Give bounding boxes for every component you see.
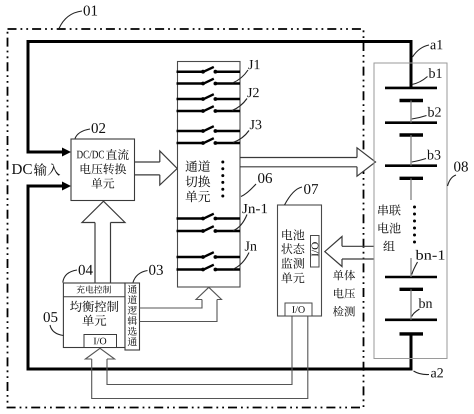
switch J2a bbox=[177, 94, 241, 101]
wire: cell link 3 bbox=[410, 178, 412, 200]
switch J1b bbox=[177, 79, 241, 86]
label DC input bbox=[12, 163, 60, 176]
arrowhead into DC/DC (lower) bbox=[62, 182, 71, 191]
battery cell bn-1 bbox=[385, 277, 437, 289]
label b2 bbox=[412, 107, 441, 119]
label 02 bbox=[75, 123, 105, 139]
wire: I/O link outer bbox=[92, 317, 308, 399]
label b3 bbox=[412, 150, 441, 162]
block U04: balance control unit bbox=[63, 283, 125, 348]
arrowhead into DC/DC (upper) bbox=[62, 148, 71, 157]
label 05 bbox=[44, 312, 64, 336]
battery cell b3 bbox=[385, 166, 437, 179]
wire: left lower segment into DC/DC input bbox=[28, 186, 63, 371]
I/O port of balance control bbox=[84, 335, 117, 348]
battery cell b2 bbox=[385, 123, 437, 135]
block: channel switching unit 06 bbox=[178, 62, 241, 288]
label: cell voltage detection bbox=[333, 270, 355, 317]
label a1 bbox=[413, 40, 443, 57]
label Jn bbox=[233, 241, 257, 269]
battery cell b1 bbox=[385, 88, 437, 101]
wire: cell link 2 bbox=[410, 135, 412, 166]
white arrow: DC/DC output to channel switching unit bbox=[160, 151, 177, 185]
switch J3b bbox=[177, 138, 241, 145]
enclosure border (dash-dot box of charger unit 01) bbox=[8, 29, 364, 408]
label 06 bbox=[241, 173, 272, 197]
white arrow: channel unit to series battery pack bbox=[357, 148, 376, 176]
label J1 bbox=[233, 60, 260, 83]
label Jn-1 bbox=[233, 204, 267, 231]
switch Jnb bbox=[177, 265, 241, 272]
wire: I/O link inner bbox=[107, 317, 292, 385]
switch Jn-1a bbox=[177, 214, 241, 221]
label J3 bbox=[233, 120, 261, 143]
wire: bottom bus to battery terminal a2 bbox=[27, 368, 412, 371]
battery cell bn bbox=[385, 320, 437, 334]
label 01 bbox=[59, 5, 97, 28]
wire: vertical rise to bn negative plate (node a2) bbox=[410, 334, 413, 371]
block U02: DC/DC voltage conversion unit bbox=[71, 139, 135, 201]
switch J3a bbox=[177, 126, 241, 133]
ellipsis dots in battery pack bbox=[413, 206, 416, 244]
label b1 bbox=[412, 68, 442, 84]
switch J2b bbox=[177, 106, 241, 113]
label J2 bbox=[232, 88, 259, 111]
label bn-1 bbox=[412, 250, 445, 275]
wire: cell link 4 bbox=[410, 258, 412, 277]
label 07 bbox=[285, 184, 319, 205]
wire: strobe line lower bbox=[140, 300, 218, 322]
I/O port (bottom) of monitor bbox=[285, 303, 312, 316]
label 04 bbox=[63, 265, 93, 283]
label bn bbox=[412, 298, 432, 316]
white arrow: channel logic strobe to channel switching unit bbox=[196, 287, 222, 299]
label: charge control band bbox=[77, 285, 111, 293]
ellipsis dots inside channel unit bbox=[221, 161, 224, 198]
label 08 bbox=[448, 161, 468, 186]
white arrow: cell voltage detection into monitor I/O bbox=[325, 237, 342, 267]
switch Jn-1b bbox=[177, 226, 241, 233]
wire: strobe line upper bbox=[140, 300, 203, 309]
label 03 bbox=[133, 265, 163, 283]
white arrow: balance control to DC/DC (charge control) bbox=[82, 201, 125, 222]
switch J1a bbox=[177, 67, 241, 74]
block U03: channel logic strobe (vertical) bbox=[125, 283, 140, 350]
wire: top bus from loop to battery terminal a1 bbox=[28, 40, 411, 43]
block U07: battery status monitoring unit bbox=[278, 205, 322, 316]
battery pack enclosure 08 bbox=[374, 63, 447, 359]
white arrow: monitor data into balance control I/O bbox=[85, 348, 114, 359]
I/O port (side) of monitor bbox=[311, 236, 320, 268]
switch Jna bbox=[177, 252, 241, 259]
wire: vertical drop to b1 positive plate (node a1) bbox=[410, 40, 413, 88]
wire: cell link 1 bbox=[410, 101, 412, 123]
label a2 bbox=[414, 368, 443, 377]
label: series battery pack bbox=[378, 205, 400, 251]
wire: cell link 5 bbox=[410, 289, 412, 320]
wire: left upper segment into DC/DC input bbox=[28, 40, 63, 152]
